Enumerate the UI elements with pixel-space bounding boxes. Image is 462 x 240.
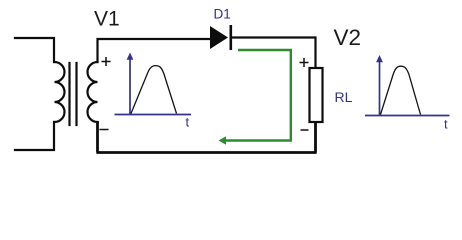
svg-text:RL: RL (335, 89, 353, 105)
svg-text:V2: V2 (334, 25, 362, 50)
svg-text:t: t (444, 117, 448, 132)
svg-text:t: t (186, 114, 190, 129)
svg-text:D1: D1 (214, 7, 231, 22)
svg-text:V1: V1 (94, 8, 120, 31)
